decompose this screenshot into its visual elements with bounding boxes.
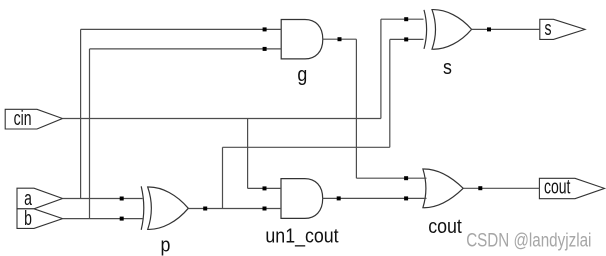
pin dot s input 2 [404,37,408,41]
pin dot s output [487,27,491,31]
pin dot p input 2 [120,217,124,221]
wire net cin vertical up to s gate [380,19,382,118]
wire net un1_cout output to cout pin 2 [323,197,427,199]
pin dot cout input 2 [404,196,408,200]
svg-text:s: s [443,57,452,79]
svg-text:cin: cin [14,106,32,129]
wire net p vertical branch up [222,147,224,208]
svg-text:cout: cout [544,175,571,198]
wire net cin main horizontal [63,118,381,120]
input port a [17,186,63,209]
pin dot un1_cout input 2 [263,207,267,211]
AND gate g [281,20,323,87]
XOR gate s [424,10,472,80]
svg-text:cout: cout [428,216,462,238]
pin dot p output [203,207,207,211]
wire net g horizontal to cout pin 1 [356,177,426,179]
wire net a horizontal to g pin 1 [81,28,282,30]
svg-text:g: g [297,64,307,86]
pin dot un1_cout input 1 [263,186,267,190]
wire net p middle horizontal [223,146,390,148]
wire net b horizontal from port b to p pin [63,218,143,220]
svg-text:CSDN @landyjzlai: CSDN @landyjzlai [466,229,591,251]
wire net g vertical down [355,39,357,178]
pin dot cout output [478,186,482,190]
svg-text:un1_cout: un1_cout [265,226,339,248]
wire net a horizontal from port a to p pin [63,198,143,200]
wire net cin vertical branch down to un1_cout [247,119,249,189]
OR gate cout [423,169,463,238]
svg-text:b: b [24,206,32,229]
wire net cin horizontal to s pin 1 [381,18,424,20]
pin dot s input 1 [404,17,408,21]
wire net p horizontal to s pin 2 [390,38,424,40]
pin dot p input 1 [120,197,124,201]
wire net cout output to port cout [463,187,539,189]
wire net b horizontal to g pin 2 [90,48,282,50]
output port cout [539,175,604,199]
wire net p vertical up to s gate [389,39,391,147]
input port cin [5,106,62,129]
wire net s output to port s [472,28,540,30]
pin dot g input 1 [263,27,267,31]
wire net p output horizontal to un1_cout pin 2 [188,208,281,210]
svg-text:p: p [160,234,170,256]
wire net b vertical branch [89,49,91,219]
wire net a vertical branch [80,29,82,198]
XOR gate p [141,186,188,256]
pin dot un1_cout output [337,196,341,200]
wire net g output horizontal [323,38,357,40]
input port b [17,206,63,229]
svg-text:s: s [545,16,552,39]
wire net cin horizontal to un1_cout pin 1 [248,187,281,189]
AND gate un1_cout [265,179,339,248]
pin dot g output [338,37,342,41]
output port s [540,16,585,39]
pin dot g input 2 [263,47,267,51]
pin dot cout input 1 [404,176,408,180]
